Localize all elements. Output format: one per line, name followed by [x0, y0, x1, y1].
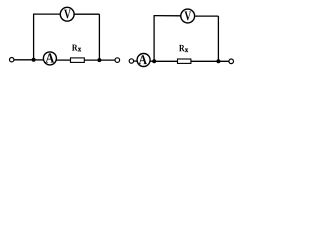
node D (junction dot): [216, 59, 220, 63]
wire resistor R1 to node B to terminal T2: [84, 59, 115, 61]
wire down to node D: [217, 16, 219, 61]
terminal T1 (left, open circle): [10, 58, 14, 62]
resistor R2 (Rx): [178, 59, 191, 63]
voltmeter V1: [60, 7, 74, 21]
label Rx (right): [179, 45, 185, 51]
wire top left to voltmeter V1: [33, 13, 60, 15]
wire resistor R2 to node D to terminal T4: [191, 60, 229, 62]
wire T1 to node A: [14, 59, 34, 61]
ammeter A2: [137, 54, 150, 67]
node B (junction dot): [97, 58, 101, 62]
wire node C to resistor R2: [154, 60, 177, 62]
wire node A to ammeter A1: [34, 59, 44, 61]
wire node A up: [33, 14, 35, 60]
ammeter A1: [43, 52, 56, 65]
wire down to node B: [98, 14, 100, 60]
wire voltmeter V1 to top right corner: [74, 13, 99, 15]
resistor R1 (Rx): [71, 58, 85, 63]
wire top left to voltmeter V2: [154, 15, 181, 17]
node A (junction dot): [32, 58, 36, 62]
wire voltmeter V2 to top right corner: [195, 15, 219, 17]
terminal T2 (right, open circle): [115, 58, 120, 63]
wire node C up: [153, 16, 155, 62]
voltmeter V2: [181, 9, 195, 23]
node C (junction dot): [152, 59, 156, 63]
terminal T4 (right, open circle): [229, 59, 234, 64]
wire ammeter A2 to node C: [150, 60, 154, 62]
wire ammeter A1 to resistor R1: [56, 59, 70, 61]
wire T3 to ammeter A2: [134, 60, 138, 62]
label Rx (left): [72, 45, 78, 51]
terminal T3 (left, open circle): [129, 59, 133, 63]
